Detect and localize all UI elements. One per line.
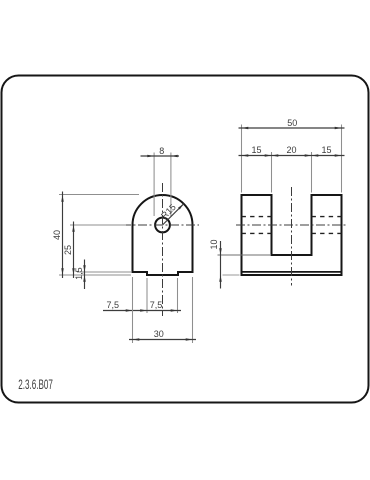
svg-text:15: 15 (321, 145, 331, 155)
svg-text:2.3.6.B07: 2.3.6.B07 (18, 378, 53, 393)
dimension 30 line (129, 339, 196, 341)
extension line y=272 for 1,5 (77, 271, 131, 273)
svg-text:1,5: 1,5 (74, 267, 84, 280)
extension lines for 50 / 15-20-15 (242, 125, 342, 193)
vertical centerline front view (291, 187, 293, 286)
dimension 8 line (141, 155, 180, 157)
dimension 7,5 7,5 line (103, 310, 181, 312)
extension lines for 30 (133, 277, 193, 343)
extension lines for dim 8 (hole tangents) (154, 153, 171, 217)
svg-text:10: 10 (209, 239, 219, 249)
horizontal centerline of hole (126, 224, 199, 226)
svg-text:30: 30 (154, 329, 164, 339)
svg-text:7,5: 7,5 (150, 300, 163, 310)
dimension 50 line (239, 127, 345, 129)
leader line R15 (163, 204, 184, 225)
svg-text:15: 15 (251, 145, 261, 155)
hidden lines of hole (lower) (242, 232, 342, 234)
hole ∅8 (155, 218, 170, 233)
extension lines bottom steps (7,5 dims) (147, 278, 178, 313)
front view U-channel outline (242, 195, 342, 275)
svg-text:50: 50 (287, 118, 297, 128)
dimension 10 line (220, 241, 222, 289)
frame border (2, 76, 369, 403)
extension line y=225 for 25 (70, 224, 126, 226)
dimension 1,5 line (84, 260, 86, 290)
extension line y=275 shared 40/25/1,5 (59, 274, 131, 276)
side view outline with R15 arc top and 1.5 bottom tab (133, 195, 193, 275)
horizontal centerline front view (236, 224, 347, 226)
R15 arrow at arc (178, 203, 185, 210)
vertical centerline of side view (162, 183, 164, 316)
svg-text:7,5: 7,5 (107, 300, 120, 310)
svg-text:20: 20 (286, 145, 296, 155)
dim 8 arrows (147, 155, 154, 158)
hidden lines of hole (upper) (242, 216, 342, 218)
extension line top of 40 (59, 194, 139, 196)
svg-text:8: 8 (159, 146, 164, 156)
svg-text:40: 40 (52, 230, 62, 240)
dimension 40 line (62, 192, 64, 279)
visible step edge near bottom (242, 271, 342, 273)
svg-text:25: 25 (63, 245, 73, 255)
dimension 15 20 15 line (239, 155, 345, 157)
dimension 25 line (73, 222, 75, 279)
extension lines for 10 (218, 254, 271, 256)
